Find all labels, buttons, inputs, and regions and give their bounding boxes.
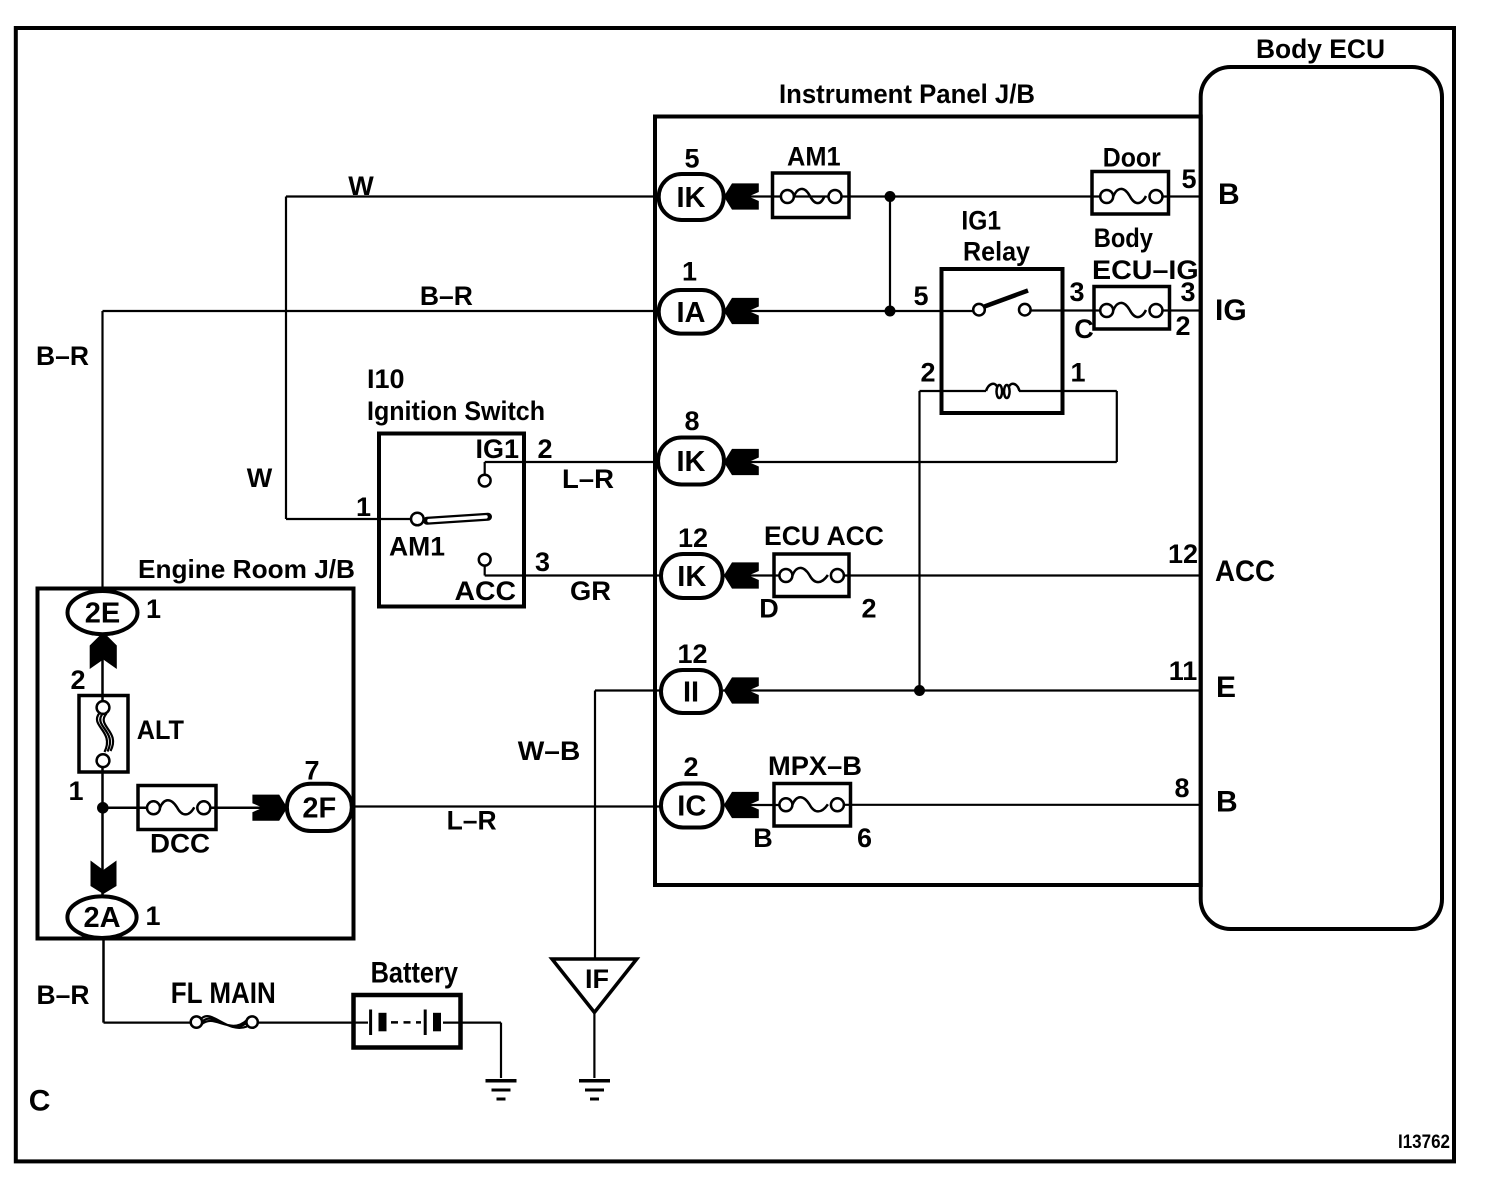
svg-text:Body: Body (1094, 223, 1153, 253)
svg-text:2: 2 (537, 434, 552, 464)
svg-text:3: 3 (1069, 277, 1084, 307)
svg-text:Battery: Battery (371, 957, 459, 990)
svg-text:8: 8 (684, 406, 699, 436)
svg-text:B–R: B–R (36, 341, 89, 371)
svg-text:6: 6 (857, 823, 872, 853)
svg-text:12: 12 (678, 523, 708, 553)
svg-text:2: 2 (920, 358, 935, 388)
svg-text:C: C (29, 1085, 51, 1118)
svg-text:8: 8 (1174, 773, 1189, 803)
svg-text:B: B (753, 823, 773, 853)
svg-text:W–B: W–B (518, 736, 581, 766)
svg-text:7: 7 (304, 756, 319, 786)
svg-text:Ignition Switch: Ignition Switch (367, 396, 545, 426)
svg-text:2: 2 (683, 752, 698, 782)
svg-text:2: 2 (70, 665, 85, 695)
svg-text:3: 3 (1180, 277, 1195, 307)
svg-text:1: 1 (1070, 358, 1085, 388)
svg-text:L–R: L–R (562, 464, 614, 494)
svg-text:ACC: ACC (1215, 555, 1275, 588)
svg-text:2: 2 (861, 594, 876, 624)
svg-text:1: 1 (356, 492, 371, 522)
svg-text:II: II (683, 677, 699, 709)
svg-text:IK: IK (677, 561, 706, 593)
svg-text:11: 11 (1169, 656, 1198, 686)
svg-text:FL MAIN: FL MAIN (171, 977, 276, 1010)
svg-text:12: 12 (677, 639, 707, 669)
svg-text:C: C (1074, 314, 1094, 344)
svg-text:2A: 2A (83, 902, 120, 934)
svg-text:B: B (1216, 786, 1238, 819)
svg-text:IF: IF (585, 964, 609, 994)
svg-text:1: 1 (68, 776, 83, 806)
svg-text:2F: 2F (302, 793, 336, 825)
svg-text:IG1: IG1 (961, 206, 1001, 236)
svg-text:1: 1 (146, 594, 161, 624)
svg-text:IC: IC (677, 791, 706, 823)
svg-text:5: 5 (1181, 164, 1196, 194)
svg-text:ECU ACC: ECU ACC (764, 521, 884, 551)
svg-text:Door: Door (1103, 143, 1161, 173)
svg-text:2E: 2E (85, 598, 120, 630)
svg-text:Body ECU: Body ECU (1256, 34, 1385, 64)
svg-text:DCC: DCC (150, 829, 210, 859)
svg-text:IK: IK (677, 182, 706, 214)
svg-text:Instrument Panel J/B: Instrument Panel J/B (779, 79, 1035, 109)
svg-text:GR: GR (570, 576, 611, 606)
svg-text:B–R: B–R (37, 980, 90, 1010)
svg-text:Engine Room J/B: Engine Room J/B (138, 554, 355, 584)
svg-text:5: 5 (684, 144, 699, 174)
svg-text:12: 12 (1168, 539, 1198, 569)
svg-text:W: W (348, 171, 374, 201)
svg-text:D: D (759, 594, 779, 624)
svg-text:I10: I10 (367, 364, 405, 394)
svg-text:E: E (1216, 671, 1236, 704)
svg-text:I13762: I13762 (1398, 1132, 1450, 1153)
svg-text:1: 1 (682, 257, 697, 287)
svg-text:IA: IA (677, 297, 706, 329)
svg-text:IG: IG (1215, 294, 1247, 327)
svg-text:B: B (1218, 178, 1240, 211)
svg-text:W: W (247, 463, 273, 493)
svg-text:B–R: B–R (420, 281, 473, 311)
svg-text:L–R: L–R (447, 806, 497, 836)
svg-text:5: 5 (913, 281, 928, 311)
svg-text:3: 3 (535, 547, 550, 577)
svg-text:IG1: IG1 (475, 434, 519, 464)
svg-text:2: 2 (1175, 311, 1190, 341)
svg-text:AM1: AM1 (787, 142, 841, 172)
svg-text:ALT: ALT (137, 715, 185, 745)
svg-text:IK: IK (677, 446, 706, 478)
svg-text:ACC: ACC (455, 576, 517, 606)
svg-text:AM1: AM1 (389, 532, 445, 562)
svg-text:Relay: Relay (963, 237, 1030, 267)
svg-text:MPX–B: MPX–B (768, 751, 862, 781)
svg-text:1: 1 (145, 901, 160, 931)
